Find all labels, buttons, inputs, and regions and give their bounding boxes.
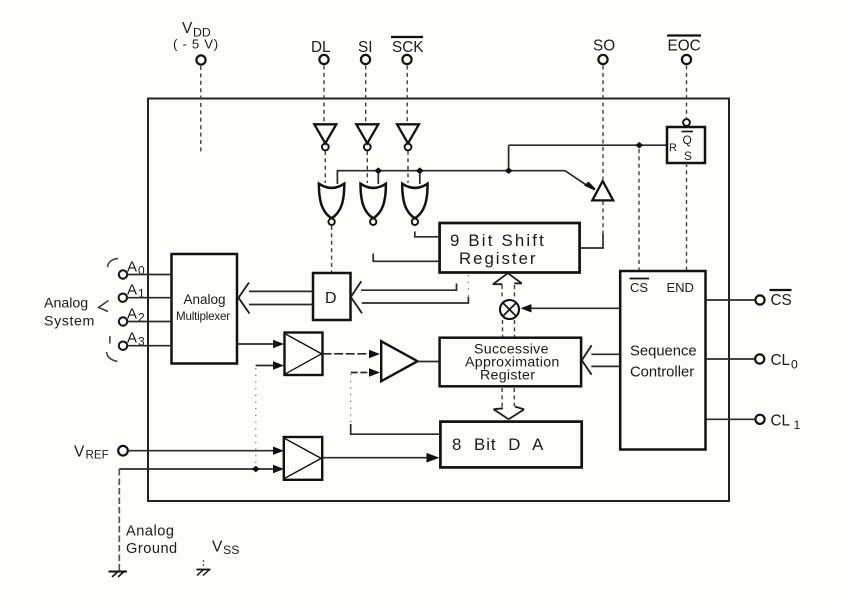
- junction: [416, 167, 424, 174]
- box 9 bit shift register: [440, 223, 580, 273]
- svg-text:V: V: [212, 539, 223, 556]
- svg-text:REF: REF: [86, 449, 109, 462]
- svg-text:CL: CL: [771, 352, 791, 369]
- svg-text:CS: CS: [630, 280, 648, 295]
- wire VDD dashed stub: [200, 66, 202, 154]
- svg-text:Analog: Analog: [184, 292, 226, 307]
- inverter U1 (DL): [314, 124, 336, 150]
- pin VDD: [173, 20, 219, 65]
- wire modulator down to SAR dashed pair: [502, 320, 504, 337]
- svg-text:V: V: [74, 444, 85, 461]
- svg-text:Analog: Analog: [44, 296, 88, 312]
- svg-text:CS: CS: [771, 292, 792, 309]
- pin SO: [593, 38, 615, 65]
- NOR gate G1: [319, 184, 344, 225]
- wire A0: [127, 274, 171, 276]
- wire shift register serial out: [580, 234, 603, 248]
- svg-text:8 Bit D A: 8 Bit D A: [452, 435, 544, 454]
- svg-text:CL: CL: [771, 413, 791, 430]
- label analog system: [44, 296, 95, 330]
- wire A2: [127, 321, 171, 323]
- pin CL1: [755, 413, 800, 433]
- pin SI: [358, 39, 372, 64]
- svg-text:Register: Register: [459, 249, 538, 268]
- chip boundary box: [148, 99, 729, 502]
- svg-text:SI: SI: [358, 39, 372, 56]
- svg-text:V: V: [182, 20, 193, 37]
- svg-text:0: 0: [791, 358, 798, 372]
- wire SO stub dashed: [602, 201, 604, 235]
- ground symbol VSS: [197, 560, 211, 576]
- pin A3: [119, 330, 145, 350]
- box 8 bit DA: [440, 422, 581, 468]
- wire SAR down dashed: [513, 388, 515, 406]
- svg-text:Analog: Analog: [126, 524, 174, 540]
- hollow arrow down into DA: [493, 407, 524, 420]
- modulator X1: [500, 300, 519, 319]
- wire controller to CL0: [706, 358, 755, 360]
- wire switch1 lower input: [256, 365, 276, 367]
- svg-text:A: A: [127, 330, 137, 347]
- label analog ground: [126, 524, 178, 558]
- wire switch1 out to comparator: [323, 353, 370, 355]
- pin A1: [119, 282, 145, 302]
- wire SO dashed: [602, 66, 604, 180]
- junction: [252, 466, 260, 473]
- wire stub up to R line: [508, 145, 510, 171]
- buffer U5 (SO output): [592, 181, 613, 200]
- bus arrow D to MUX: [239, 283, 314, 314]
- wire MUX out to switch 1: [237, 343, 276, 345]
- junction: [505, 167, 513, 174]
- pin SCK (overline): [391, 37, 424, 64]
- svg-text:Register: Register: [480, 368, 535, 384]
- inverter U3 (SCK): [397, 124, 419, 150]
- wire comparator lower input: [351, 372, 369, 374]
- bus arrow controller to SAR: [582, 345, 620, 375]
- svg-text:2: 2: [138, 311, 145, 325]
- wire drop to NOR2: [377, 171, 379, 184]
- wire long horizontal net (SCK gating): [337, 171, 588, 187]
- RS latch U4: [667, 119, 705, 163]
- wire DA upper line: [351, 424, 441, 434]
- wire latch to controller dashed: [686, 163, 688, 270]
- box D flip-flop: [313, 273, 351, 320]
- svg-text:Multiplexer: Multiplexer: [176, 310, 230, 323]
- wire NOR3 out to SR: [415, 232, 440, 237]
- svg-text:EOC: EOC: [668, 38, 701, 55]
- hollow arrow up into SR: [493, 273, 522, 299]
- svg-text:R: R: [669, 142, 677, 154]
- svg-text:D: D: [325, 290, 337, 307]
- wire controller to CL1: [706, 418, 756, 420]
- wire SI dashed: [365, 66, 367, 124]
- svg-text:SS: SS: [223, 543, 239, 557]
- svg-text:Controller: Controller: [630, 365, 694, 381]
- wire controller to CS pin: [706, 299, 756, 301]
- svg-text:A: A: [127, 306, 137, 323]
- wire R line to latch: [509, 144, 667, 146]
- svg-text:Sequence: Sequence: [630, 344, 697, 360]
- svg-text:END: END: [667, 280, 694, 295]
- wire VREF to switch2: [128, 450, 276, 452]
- wire controller to modulator: [529, 307, 620, 309]
- box SAR: [440, 338, 581, 387]
- switch S2: [284, 437, 322, 480]
- wire inverter outputs dashed: [324, 151, 326, 183]
- wire drop to NOR3: [419, 171, 421, 184]
- pin A0: [119, 259, 145, 279]
- wire SCK dashed: [406, 66, 408, 124]
- svg-text:SO: SO: [593, 38, 615, 55]
- wire dotted vertical DA feedback: [350, 374, 352, 423]
- pin CL0: [755, 352, 798, 372]
- wire DL dashed: [323, 66, 325, 124]
- wire EOC dashed: [686, 66, 688, 120]
- label VSS: [212, 539, 239, 558]
- wire comparator out: [418, 361, 440, 363]
- wire A1: [127, 297, 171, 299]
- comparator U6: [381, 341, 417, 381]
- svg-text:A: A: [127, 282, 137, 299]
- svg-text:SCK: SCK: [392, 39, 424, 56]
- box sequence controller: [620, 271, 705, 450]
- junction: [374, 167, 382, 174]
- svg-text:Q: Q: [683, 133, 692, 147]
- svg-text:A: A: [127, 259, 137, 276]
- pin VREF: [74, 444, 128, 462]
- wire NOR2 out to SR: [373, 254, 439, 262]
- bus arrow SR to D: [351, 275, 469, 313]
- svg-text:9 Bit Shift: 9 Bit Shift: [450, 231, 546, 250]
- wire ground net to switch2: [119, 468, 276, 470]
- svg-text:DL: DL: [311, 39, 331, 56]
- junction CS net: [635, 142, 643, 149]
- pin A2: [119, 306, 145, 326]
- ground symbol analog: [109, 572, 128, 578]
- wire analog ground vertical: [118, 469, 120, 571]
- wire dotted from ground net up to switch1: [255, 368, 257, 466]
- wire CS dashed down to controller: [638, 149, 640, 270]
- svg-text:Ground: Ground: [126, 541, 178, 557]
- pin DL: [311, 39, 331, 64]
- wire switch2 out to DA: [322, 457, 428, 459]
- inverter U2 (SI): [356, 124, 378, 150]
- wire NOR1 out dashed to D clock: [331, 226, 333, 272]
- box analog multiplexer: [172, 254, 238, 364]
- svg-text:S: S: [684, 149, 692, 163]
- svg-text:0: 0: [138, 264, 145, 278]
- svg-text:1: 1: [794, 418, 801, 432]
- svg-text:System: System: [44, 314, 95, 330]
- pin EOC (overline): [667, 36, 701, 65]
- brace: [99, 259, 119, 362]
- NOR gate G2: [361, 184, 386, 225]
- arrowhead into buffer: [584, 182, 596, 191]
- NOR gate G3: [402, 184, 427, 225]
- pin CS (output): [755, 290, 791, 309]
- switch S1: [285, 333, 323, 376]
- wire A3: [127, 345, 171, 347]
- svg-text:( - 5 V): ( - 5 V): [173, 37, 219, 52]
